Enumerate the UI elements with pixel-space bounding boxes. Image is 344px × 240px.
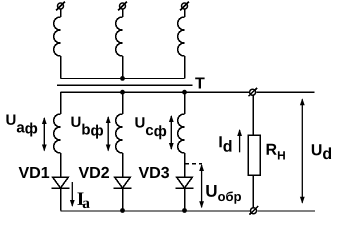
- arrow Ucf voltage (double head): [169, 115, 174, 150]
- diode VD1: [52, 177, 70, 188]
- wire terminal A to primary coil La: [60, 9, 62, 17]
- terminal phase C input: [180, 2, 189, 11]
- terminal phase A input: [56, 2, 65, 11]
- diode VD2: [114, 177, 132, 188]
- wire coil a to diode VD1: [60, 153, 62, 177]
- junction primary bus phase B: [120, 76, 125, 81]
- junction secondary bus phase b: [120, 90, 125, 95]
- bottom bus wire right part: [258, 210, 315, 212]
- wire primary coil B to primary bus: [122, 56, 124, 78]
- primary winding phase B: [116, 17, 123, 56]
- label Ucf: [135, 117, 166, 139]
- wire output terminal to resistor RH: [252, 95, 254, 135]
- wire primary coil C to primary bus: [184, 56, 186, 78]
- wire terminal B to primary coil Lb: [122, 9, 124, 17]
- secondary winding phase b: [116, 114, 123, 153]
- label Ud: [312, 144, 331, 159]
- terminal positive output: [249, 88, 258, 96]
- label Uobr: [206, 185, 241, 204]
- resistor RH: [248, 135, 260, 175]
- wire secondary bus to coil a: [60, 92, 62, 114]
- label VD1: [19, 167, 50, 178]
- terminal negative output: [249, 206, 258, 215]
- wire terminal C to primary coil Lc: [184, 9, 186, 17]
- wire coil b to diode VD2: [122, 153, 124, 177]
- primary neutral bus wire: [61, 78, 185, 80]
- secondary bus wire left part: [61, 91, 250, 93]
- junction bottom bus phase c: [182, 208, 187, 213]
- arrow Uaf voltage (double head): [42, 117, 47, 152]
- diode VD3: [176, 177, 194, 188]
- wire coil c to diode VD3: [184, 153, 186, 177]
- arrow Ia current (down): [70, 182, 75, 207]
- wire primary coil A to primary bus: [60, 56, 62, 78]
- secondary bus wire right part: [257, 91, 315, 93]
- label VD3: [139, 167, 169, 178]
- junction bottom bus phase b: [120, 208, 125, 213]
- label VD2: [79, 167, 109, 178]
- wire diode VD1 to bottom bus: [60, 188, 62, 210]
- junction secondary bus phase c: [182, 90, 187, 95]
- arrow Uobr reverse voltage (double head): [199, 164, 204, 208]
- label Uaf: [6, 115, 37, 137]
- arrow Id current (up): [237, 129, 242, 152]
- wire diode VD2 to bottom bus: [122, 188, 124, 210]
- label Ubf: [71, 117, 103, 139]
- label Id: [219, 136, 231, 152]
- arrow Ubf voltage (double head): [106, 116, 111, 152]
- wire diode VD3 to bottom bus: [184, 188, 186, 210]
- bottom bus wire left part: [61, 210, 251, 212]
- arrow Ud voltage (double head): [300, 98, 305, 203]
- terminal phase B input: [118, 2, 127, 11]
- primary winding phase A: [54, 17, 61, 56]
- wire secondary bus to coil c: [184, 92, 186, 114]
- wire resistor RH to bottom terminal: [252, 175, 254, 207]
- wire secondary bus to coil b: [122, 92, 124, 114]
- label RH: [267, 144, 285, 160]
- label transformer T: [195, 78, 204, 89]
- label Ia: [77, 193, 89, 209]
- secondary winding phase a: [54, 114, 61, 153]
- primary winding phase C: [178, 17, 185, 56]
- transformer core line: [57, 84, 193, 86]
- dashed link diode VD3 anode to Uobr arrow: [185, 163, 202, 165]
- secondary winding phase c: [178, 114, 185, 153]
